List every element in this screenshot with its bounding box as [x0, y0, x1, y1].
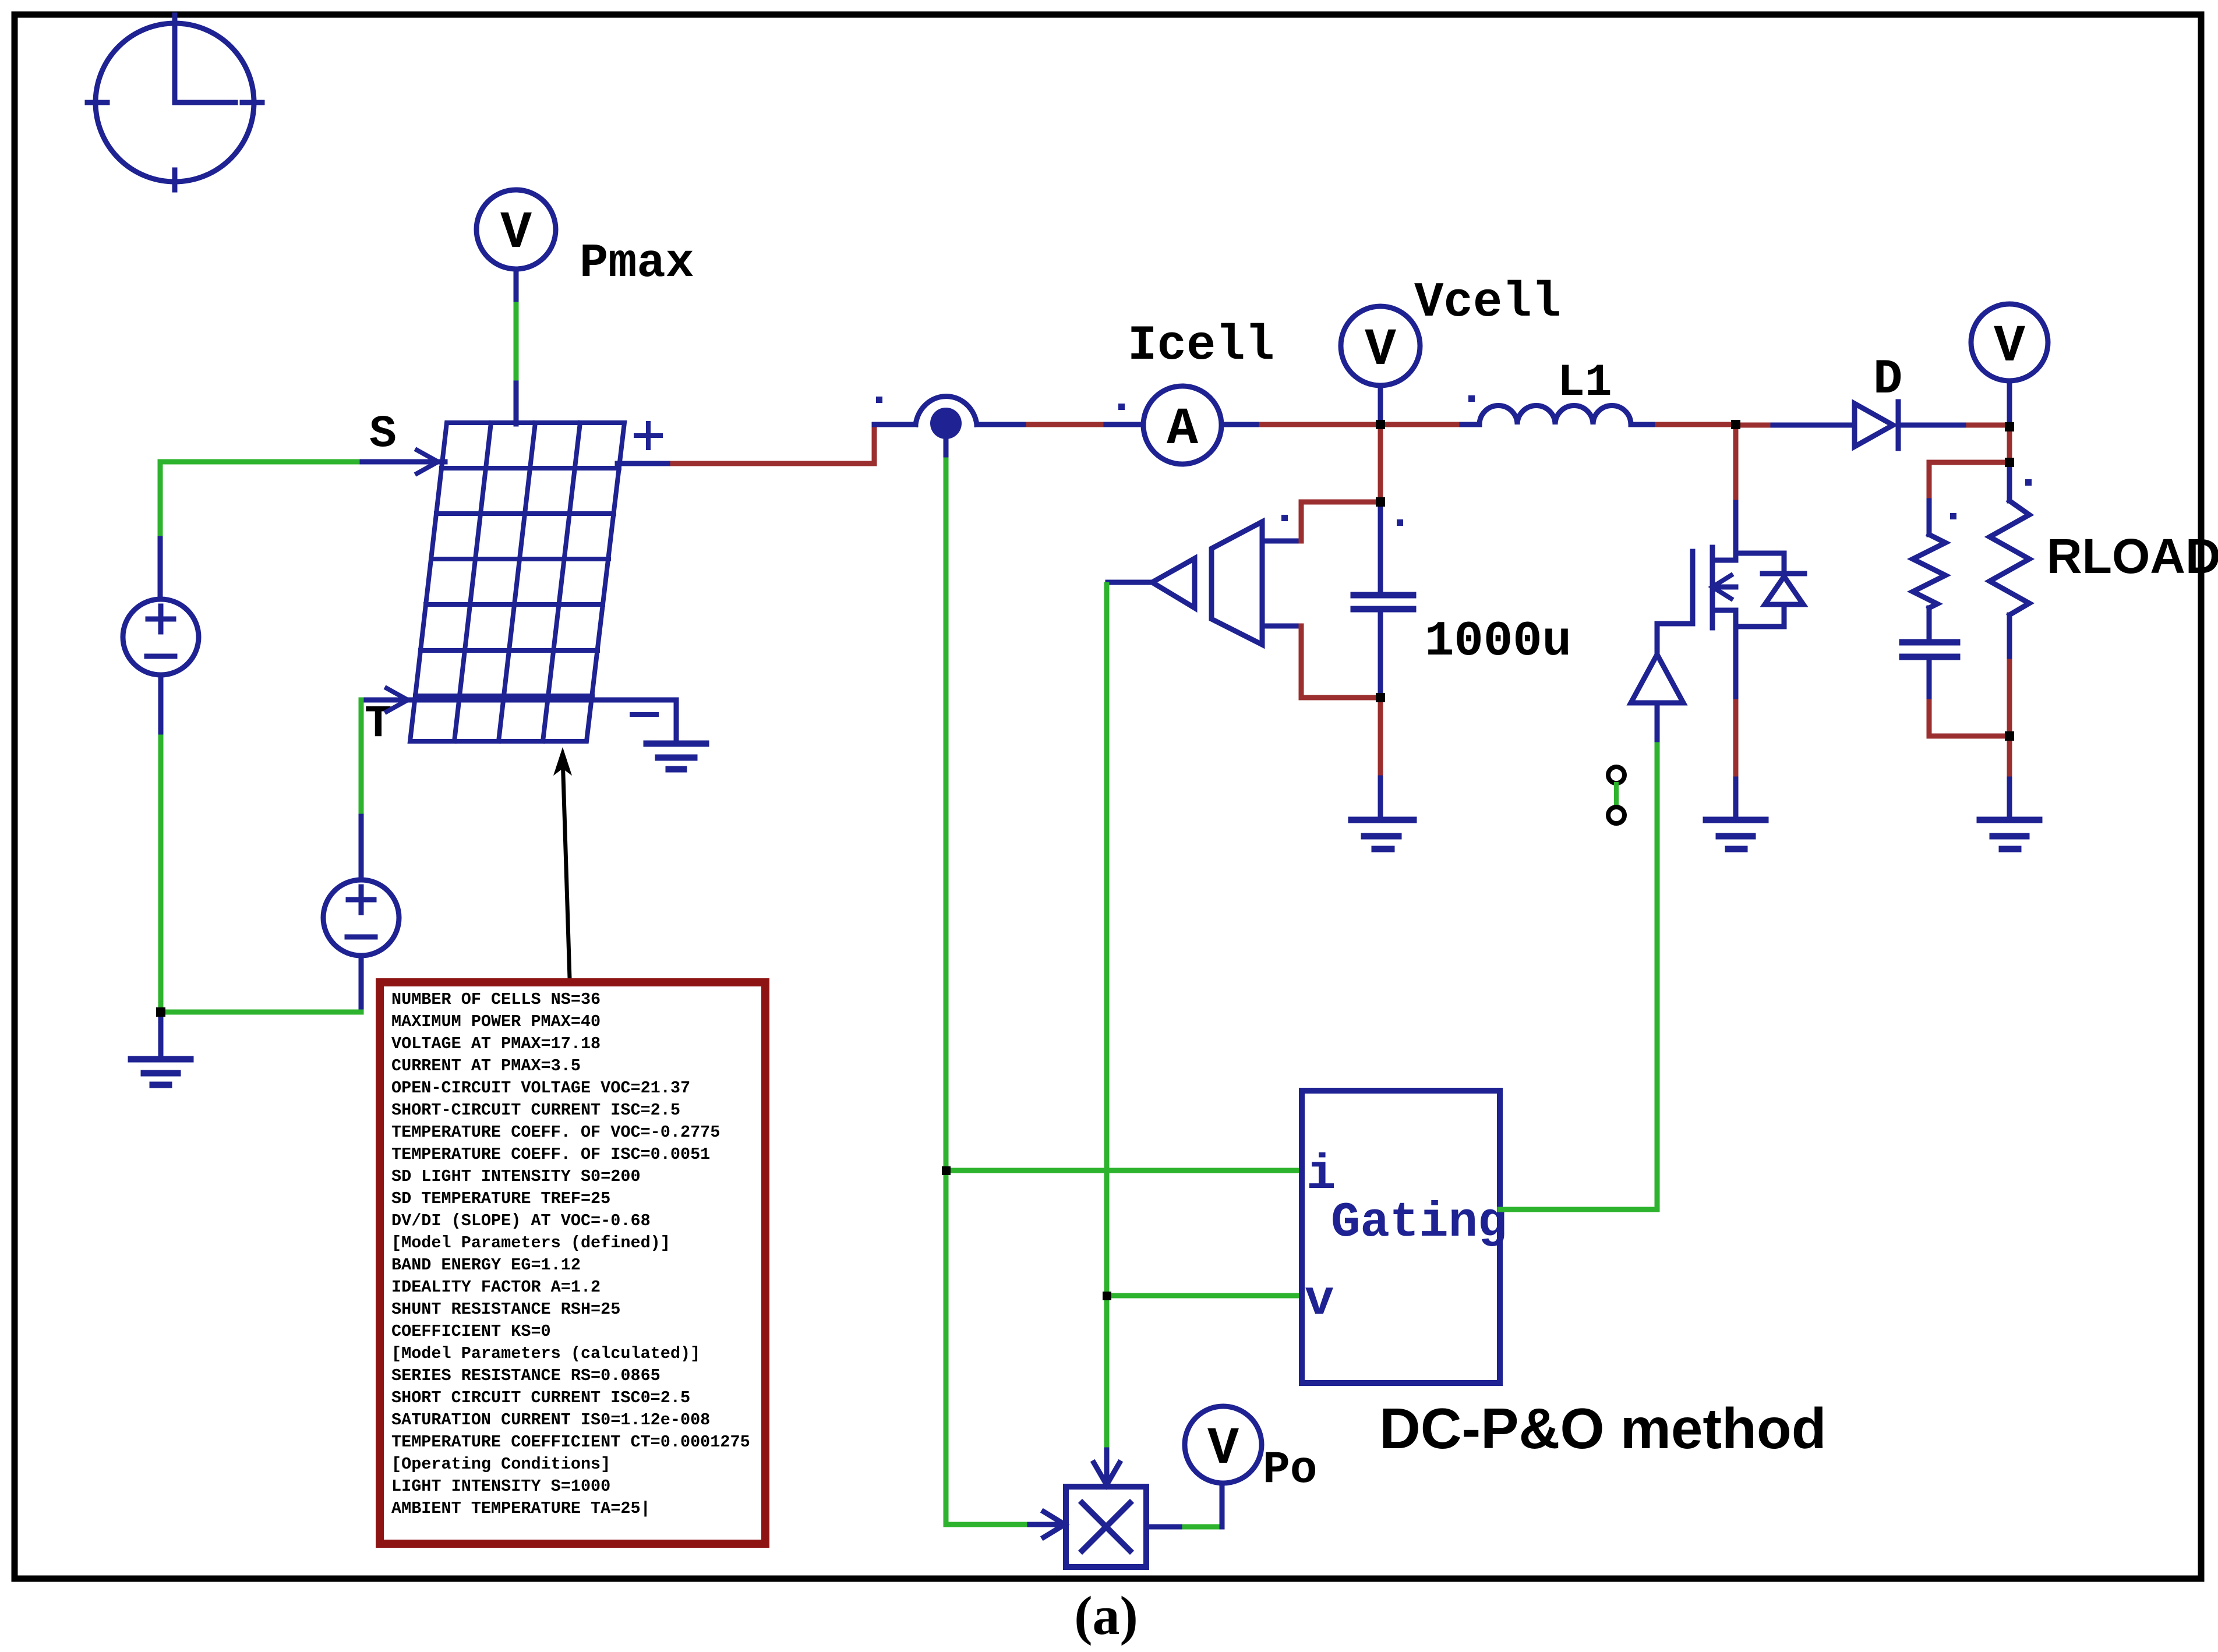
diode D [1855, 402, 1898, 448]
svg-text:[Operating Conditions]: [Operating Conditions] [391, 1455, 610, 1474]
svg-text:(a): (a) [1074, 1586, 1138, 1646]
node capacitor bottom junction [1376, 693, 1385, 702]
wire below S source (navy then green) [158, 675, 164, 1012]
wire to output ground (red then navy) [2007, 736, 2012, 818]
svg-text:SD LIGHT INTENSITY S0=200: SD LIGHT INTENSITY S0=200 [391, 1167, 641, 1186]
wire output node down [2007, 425, 2012, 462]
wire T input (green corner, navy with arrow) [361, 700, 676, 880]
svg-text:COEFFICIENT KS=0: COEFFICIENT KS=0 [391, 1322, 551, 1341]
annotation arrow from parameter box to panel [553, 747, 572, 978]
current sensor hump [916, 397, 977, 425]
wire sensor top terminal (navy,red) [1262, 502, 1380, 541]
svg-text:Vcell: Vcell [1414, 275, 1561, 331]
gating control block [1302, 1091, 1500, 1383]
svg-text:V: V [1994, 317, 2025, 377]
voltmeter V (Po probe) [1185, 1406, 1262, 1483]
resistor R (snubber) [1913, 535, 1945, 608]
panel minus terminal label [632, 712, 656, 717]
switch control terminals [1608, 767, 1624, 823]
svg-text:TEMPERATURE COEFF. OF ISC=0.00: TEMPERATURE COEFF. OF ISC=0.0051 [391, 1145, 710, 1164]
wire gating output (green) [1500, 740, 1657, 1209]
node output bus junction [2005, 422, 2014, 431]
wire v sense green vertical [1104, 585, 1110, 1450]
svg-text:A: A [1167, 400, 1199, 459]
capacitor 1000u [1354, 507, 1413, 698]
svg-text:V: V [1365, 321, 1396, 380]
wire diode to output node (navy then red) [1898, 423, 2009, 428]
node mosfet drain junction [1731, 420, 1740, 429]
node Vcell bus junction [1376, 420, 1385, 429]
wire capacitor bottom to ground (red then navy) [1378, 698, 1383, 818]
svg-text:L1: L1 [1557, 358, 1612, 409]
gate driver triangle [1631, 655, 1683, 703]
wire below T source [359, 956, 364, 1012]
inductor L1 [1462, 406, 1658, 425]
current sensor node dot [930, 408, 962, 439]
wire i sense green vertical [944, 438, 949, 1524]
svg-text:[Model Parameters (calculated): [Model Parameters (calculated)] [391, 1344, 700, 1363]
svg-text:Icell: Icell [1128, 319, 1274, 374]
voltmeter V (Vcell) [1341, 306, 1420, 425]
wire RC branch navy upper [1927, 501, 1932, 535]
ground under capacitor [1351, 820, 1414, 849]
wire bus into current sensor [874, 422, 916, 427]
svg-text:LIGHT INTENSITY S=1000: LIGHT INTENSITY S=1000 [391, 1477, 610, 1496]
wire RLOAD bottom (navy then red) [2007, 615, 2012, 736]
wire Vcell node down [1378, 425, 1383, 502]
voltmeter V (output) [1971, 304, 2048, 425]
ground left [131, 1012, 190, 1085]
svg-text:Po: Po [1263, 1445, 1318, 1496]
ground under mosfet [1706, 820, 1765, 849]
mosfet Q1 [1693, 547, 1736, 702]
node capacitor top junction [1376, 497, 1385, 507]
parameter text box [380, 982, 765, 1544]
svg-text:[Model Parameters (defined)]: [Model Parameters (defined)] [391, 1233, 670, 1253]
multiplier block [1066, 1487, 1146, 1567]
svg-text:RLOAD: RLOAD [2047, 529, 2218, 583]
dc source T (temperature) [323, 880, 399, 956]
svg-text:SHORT-CIRCUIT CURRENT ISC=2.5: SHORT-CIRCUIT CURRENT ISC=2.5 [391, 1101, 680, 1120]
parameter box text [391, 990, 750, 1518]
svg-text:SATURATION CURRENT IS0=1.12e-0: SATURATION CURRENT IS0=1.12e-008 [391, 1410, 710, 1430]
wire Pmax meter to panel (navy-green-navy) [514, 269, 519, 424]
clock element [87, 15, 262, 190]
svg-text:OPEN-CIRCUIT VOLTAGE VOC=21.37: OPEN-CIRCUIT VOLTAGE VOC=21.37 [391, 1078, 690, 1098]
ground output [1980, 820, 2039, 849]
wire v sense output (navy stub) [1108, 580, 1152, 585]
wire i to gating (green) [946, 1168, 1302, 1173]
svg-text:TEMPERATURE COEFFICIENT CT=0.0: TEMPERATURE COEFFICIENT CT=0.0001275 [391, 1432, 750, 1452]
svg-text:SERIES RESISTANCE RS=0.0865: SERIES RESISTANCE RS=0.0865 [391, 1366, 661, 1385]
multiplier top input arrow [1094, 1450, 1119, 1485]
wire inductor to mosfet node (red) [1658, 422, 1736, 427]
svg-text:DC-P&O method: DC-P&O method [1379, 1396, 1827, 1460]
svg-text:NUMBER OF CELLS NS=36: NUMBER OF CELLS NS=36 [391, 990, 601, 1009]
wire ammeter to Vcell node (navy then red) [1221, 422, 1380, 427]
svg-text:VOLTAGE AT PMAX=17.18: VOLTAGE AT PMAX=17.18 [391, 1034, 601, 1053]
voltage sensor trapezoid body [1212, 522, 1262, 645]
wire sensor bottom terminal (navy,red) [1262, 626, 1380, 698]
svg-text:T: T [365, 699, 392, 750]
dc source S (irradiance) [123, 599, 199, 675]
node RLOAD bottom junction [2005, 731, 2014, 741]
svg-text:1000u: 1000u [1425, 614, 1571, 670]
svg-text:MAXIMUM POWER PMAX=40: MAXIMUM POWER PMAX=40 [391, 1012, 601, 1031]
wire left green vertical to S source [158, 462, 163, 599]
svg-text:CURRENT AT PMAX=3.5: CURRENT AT PMAX=3.5 [391, 1056, 581, 1076]
svg-text:BAND ENERGY EG=1.12: BAND ENERGY EG=1.12 [391, 1255, 581, 1275]
wire R to C [1927, 608, 1932, 639]
panel plus terminal label [636, 423, 661, 448]
multiplier left input arrow [946, 1512, 1065, 1537]
svg-text:DV/DI (SLOPE) AT VOC=-0.68: DV/DI (SLOPE) AT VOC=-0.68 [391, 1211, 651, 1230]
wire bus Vcell node to inductor (red) [1380, 422, 1462, 427]
svg-text:SD TEMPERATURE TREF=25: SD TEMPERATURE TREF=25 [391, 1189, 610, 1208]
voltage sensor output triangle [1152, 558, 1195, 608]
svg-text:Pmax: Pmax [580, 236, 694, 291]
svg-text:i: i [1306, 1148, 1336, 1203]
node i junction [942, 1166, 951, 1175]
wire driver to gate [1657, 624, 1693, 740]
svg-text:V: V [500, 204, 532, 263]
wire RC branch top (red) [1929, 462, 2009, 501]
node junction bottom-left [156, 1007, 165, 1017]
svg-text:SHORT CIRCUIT CURRENT ISC0=2.5: SHORT CIRCUIT CURRENT ISC0=2.5 [391, 1388, 690, 1407]
wire mosfet source to ground (red then navy) [1733, 702, 1739, 818]
capacitor C (snubber) [1902, 642, 1957, 657]
node v junction [1103, 1292, 1111, 1300]
svg-text:IDEALITY FACTOR A=1.2: IDEALITY FACTOR A=1.2 [391, 1278, 601, 1297]
ground under panel [647, 744, 706, 769]
solar panel PV module grid [410, 423, 624, 741]
svg-text:TEMPERATURE COEFF. OF VOC=-0.2: TEMPERATURE COEFF. OF VOC=-0.2775 [391, 1123, 720, 1142]
resistor RLOAD [1990, 501, 2029, 615]
svg-text:S: S [369, 409, 397, 460]
svg-text:V: V [1207, 1420, 1239, 1479]
mosfet body diode [1736, 553, 1804, 627]
svg-text:SHUNT RESISTANCE RSH=25: SHUNT RESISTANCE RSH=25 [391, 1300, 620, 1319]
svg-text:AMBIENT TEMPERATURE TA=25|: AMBIENT TEMPERATURE TA=25| [391, 1499, 651, 1518]
wire multiplier output to Po meter [1146, 1484, 1222, 1527]
ammeter A [1143, 386, 1221, 464]
wire bus mosfet node to diode (red then navy) [1736, 423, 1855, 428]
wire v to gating (green) [1107, 1293, 1302, 1299]
wire RLOAD branch top [2007, 462, 2012, 501]
wire panel bottom output to ground [674, 700, 679, 738]
wire bus after sensor (navy then red) [977, 422, 1143, 427]
voltmeter V (Pmax probe) [476, 190, 556, 269]
wire step up to main bus [872, 425, 877, 464]
node RC branch junction [2005, 458, 2014, 467]
wire panel + output (navy then red) [617, 461, 874, 466]
S input arrowhead [417, 450, 438, 473]
wire drain vertical (red then navy) [1733, 425, 1739, 560]
wire bottom green horizontal [161, 1010, 361, 1015]
wire S input (green then navy with arrow) [160, 459, 445, 465]
node marker dots [876, 395, 2032, 526]
svg-text:v: v [1305, 1274, 1334, 1329]
T input arrowhead [387, 688, 408, 712]
wire C bottom (navy then red) [1929, 660, 2009, 736]
svg-text:Gating: Gating [1331, 1195, 1507, 1251]
